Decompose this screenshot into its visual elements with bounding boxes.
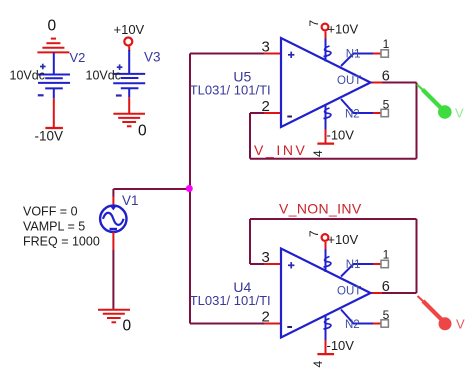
svg-text:10Vdc: 10Vdc — [86, 69, 121, 83]
svg-text:N2: N2 — [345, 108, 360, 120]
svg-text:0: 0 — [48, 18, 57, 35]
svg-text:1: 1 — [383, 37, 390, 51]
svg-text:-10V: -10V — [35, 129, 64, 144]
svg-text:V_NON_INV: V_NON_INV — [279, 201, 362, 217]
svg-text:0: 0 — [123, 318, 132, 335]
svg-text:7: 7 — [307, 20, 321, 27]
svg-text:VAMPL = 5: VAMPL = 5 — [23, 220, 85, 234]
svg-text:TL031/ 101/TI: TL031/ 101/TI — [190, 293, 271, 308]
svg-text:6: 6 — [382, 68, 390, 84]
svg-text:V: V — [456, 317, 465, 332]
svg-text:2: 2 — [262, 98, 270, 115]
svg-text:0: 0 — [138, 123, 147, 140]
svg-text:5: 5 — [383, 98, 390, 112]
svg-text:N1: N1 — [346, 49, 361, 61]
svg-text:V2: V2 — [70, 50, 86, 65]
svg-text:TL031/ 101/TI: TL031/ 101/TI — [190, 83, 271, 98]
svg-text:OUT: OUT — [337, 75, 361, 87]
svg-text:V3: V3 — [144, 50, 161, 65]
svg-text:VOFF = 0: VOFF = 0 — [23, 205, 78, 219]
svg-text:FREQ = 1000: FREQ = 1000 — [23, 235, 100, 249]
svg-text:3: 3 — [262, 38, 270, 55]
svg-text:+10V: +10V — [327, 22, 358, 37]
svg-text:+10V: +10V — [114, 22, 145, 37]
svg-text:-10V: -10V — [327, 128, 355, 143]
svg-text:V: V — [455, 106, 464, 121]
svg-text:V_INV: V_INV — [254, 142, 307, 158]
svg-text:4: 4 — [311, 150, 325, 157]
svg-text:V1: V1 — [122, 193, 139, 208]
svg-text:10Vdc: 10Vdc — [10, 69, 45, 83]
